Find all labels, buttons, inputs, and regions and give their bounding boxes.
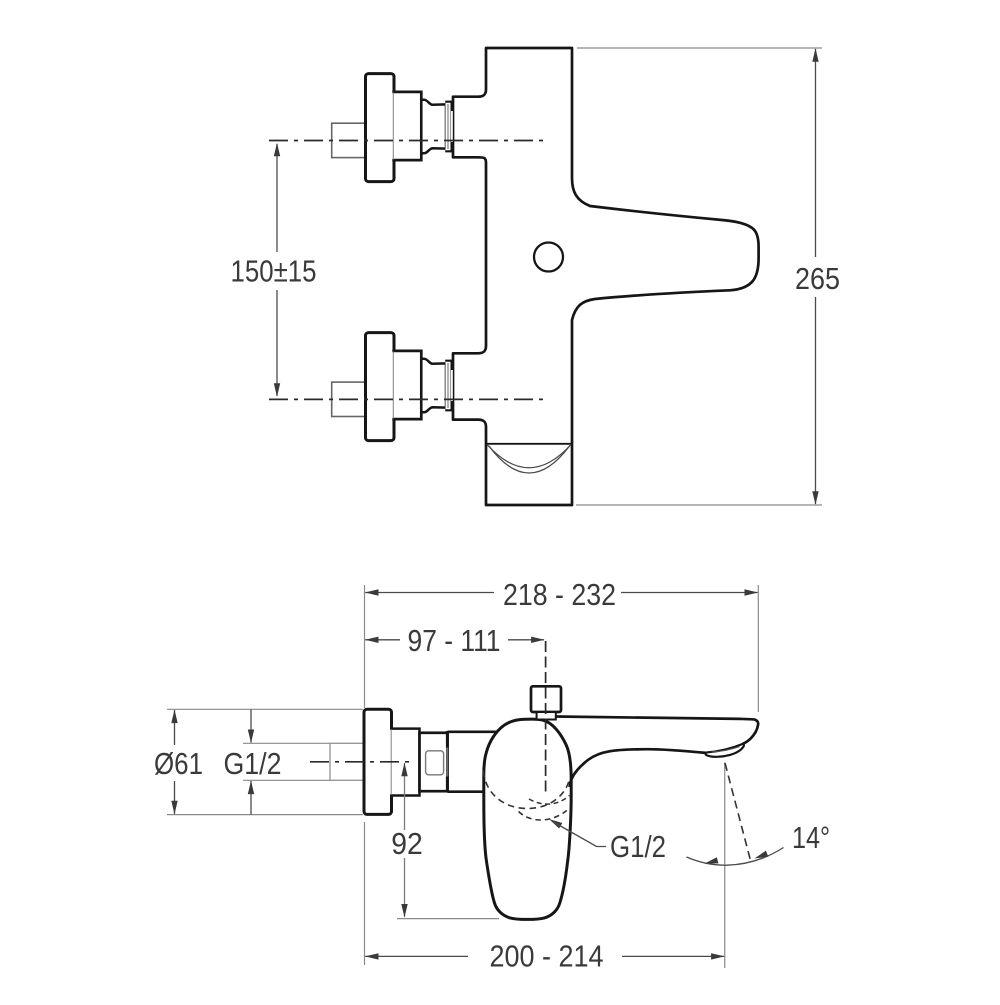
diverter stem bbox=[537, 712, 556, 720]
front nut bbox=[420, 733, 448, 791]
svg-text:14°: 14° bbox=[792, 820, 830, 855]
dimension 218-232 extension right bbox=[757, 585, 759, 712]
svg-text:Ø61: Ø61 bbox=[154, 746, 203, 781]
svg-text:200 - 214: 200 - 214 bbox=[490, 939, 604, 974]
front connector bottom edge bbox=[448, 790, 501, 793]
dimension 218-232 line bbox=[365, 592, 757, 594]
dimension 92 extension line bbox=[397, 918, 499, 920]
handle top edge and spout tip bbox=[556, 717, 758, 744]
lower inlet pipe (top view) bbox=[332, 382, 366, 416]
lower inlet thread lines bbox=[447, 363, 449, 408]
dimension 150±15 arrows bbox=[274, 143, 280, 157]
G1/2 leader arrow bbox=[549, 819, 562, 829]
dimension 97-111 line bbox=[365, 639, 544, 641]
hidden outlet dashed arc bbox=[519, 811, 567, 821]
dimension G1/2 left extension lines bbox=[243, 742, 330, 744]
svg-text:92: 92 bbox=[391, 826, 423, 861]
dimension 200-214 line bbox=[365, 955, 724, 957]
spray angle arrow right bbox=[755, 851, 769, 859]
lower inlet nut (top view) bbox=[421, 359, 446, 412]
dimension 200-214 extension left bbox=[364, 822, 366, 965]
upper inlet thread lines bbox=[447, 104, 449, 149]
dimension 97-111 arrows bbox=[365, 637, 379, 643]
front connector top edge bbox=[448, 730, 506, 733]
dimension O61 arrows bbox=[171, 710, 177, 724]
spout lip inner line bbox=[712, 747, 740, 752]
centerline lower inlet bbox=[269, 398, 545, 400]
top view waterline bbox=[487, 443, 572, 445]
G1/2 leader line bbox=[553, 822, 607, 847]
svg-text:265: 265 bbox=[795, 261, 840, 296]
hidden connection dashed curl bbox=[529, 796, 570, 805]
dimension G1/2 left arrows bbox=[248, 730, 254, 744]
centerline upper inlet bbox=[269, 140, 545, 142]
dimension O61 extension lines bbox=[167, 708, 363, 710]
dimension 265 arrows bbox=[812, 48, 818, 62]
dimension 92 arrows bbox=[401, 763, 407, 777]
dimension 218-232 extension left bbox=[364, 585, 366, 708]
lower inlet flange (top view) bbox=[366, 333, 395, 441]
svg-text:218 - 232: 218 - 232 bbox=[503, 577, 616, 612]
dimension 265 extension lines bbox=[577, 47, 822, 49]
dimension G1/2 left line bbox=[250, 710, 252, 815]
hidden cartridge dashed arc bbox=[483, 771, 570, 809]
upper inlet nut (top view) bbox=[421, 100, 446, 153]
front connector boundary bbox=[446, 734, 448, 790]
svg-text:150±15: 150±15 bbox=[231, 254, 317, 289]
front flange bbox=[364, 709, 392, 814]
dimension 265 line bbox=[815, 49, 817, 504]
dimension 150±15 line bbox=[276, 144, 278, 396]
spray angle dashed line bbox=[725, 763, 751, 861]
plumb line bbox=[724, 763, 726, 969]
upper inlet flange (top view) bbox=[366, 74, 395, 182]
top view arc 1 bbox=[487, 445, 571, 468]
top view spout hole bbox=[534, 243, 563, 272]
svg-text:G1/2: G1/2 bbox=[610, 829, 666, 864]
front pipe bbox=[330, 743, 364, 780]
dimension 92 line bbox=[404, 763, 406, 917]
dimension 218-232 arrows bbox=[365, 589, 379, 595]
svg-text:G1/2: G1/2 bbox=[224, 746, 282, 781]
knob dash-dot centerline bbox=[545, 641, 547, 793]
upper inlet male end (top view) bbox=[446, 101, 453, 151]
lower inlet sleeve (top view) bbox=[392, 351, 421, 419]
diverter knob bbox=[531, 686, 561, 712]
svg-text:97 - 111: 97 - 111 bbox=[408, 623, 501, 658]
upper inlet sleeve (top view) bbox=[392, 92, 421, 160]
front body blob bbox=[484, 719, 571, 919]
front sleeve bbox=[390, 729, 420, 796]
dimension 200-214 arrows bbox=[365, 953, 379, 959]
top view body outline bbox=[453, 48, 759, 505]
front centerline bbox=[310, 761, 413, 763]
spout underside bbox=[570, 749, 706, 787]
front limiter square bbox=[426, 751, 444, 775]
top view arc 2 bbox=[489, 446, 570, 473]
dimension O61 line bbox=[174, 710, 176, 814]
lower inlet male end (top view) bbox=[446, 360, 453, 410]
spout outlet lip bbox=[706, 744, 744, 757]
upper inlet pipe (top view) bbox=[332, 123, 366, 157]
spray angle arc bbox=[687, 848, 784, 866]
spray angle arrow left bbox=[705, 857, 719, 863]
